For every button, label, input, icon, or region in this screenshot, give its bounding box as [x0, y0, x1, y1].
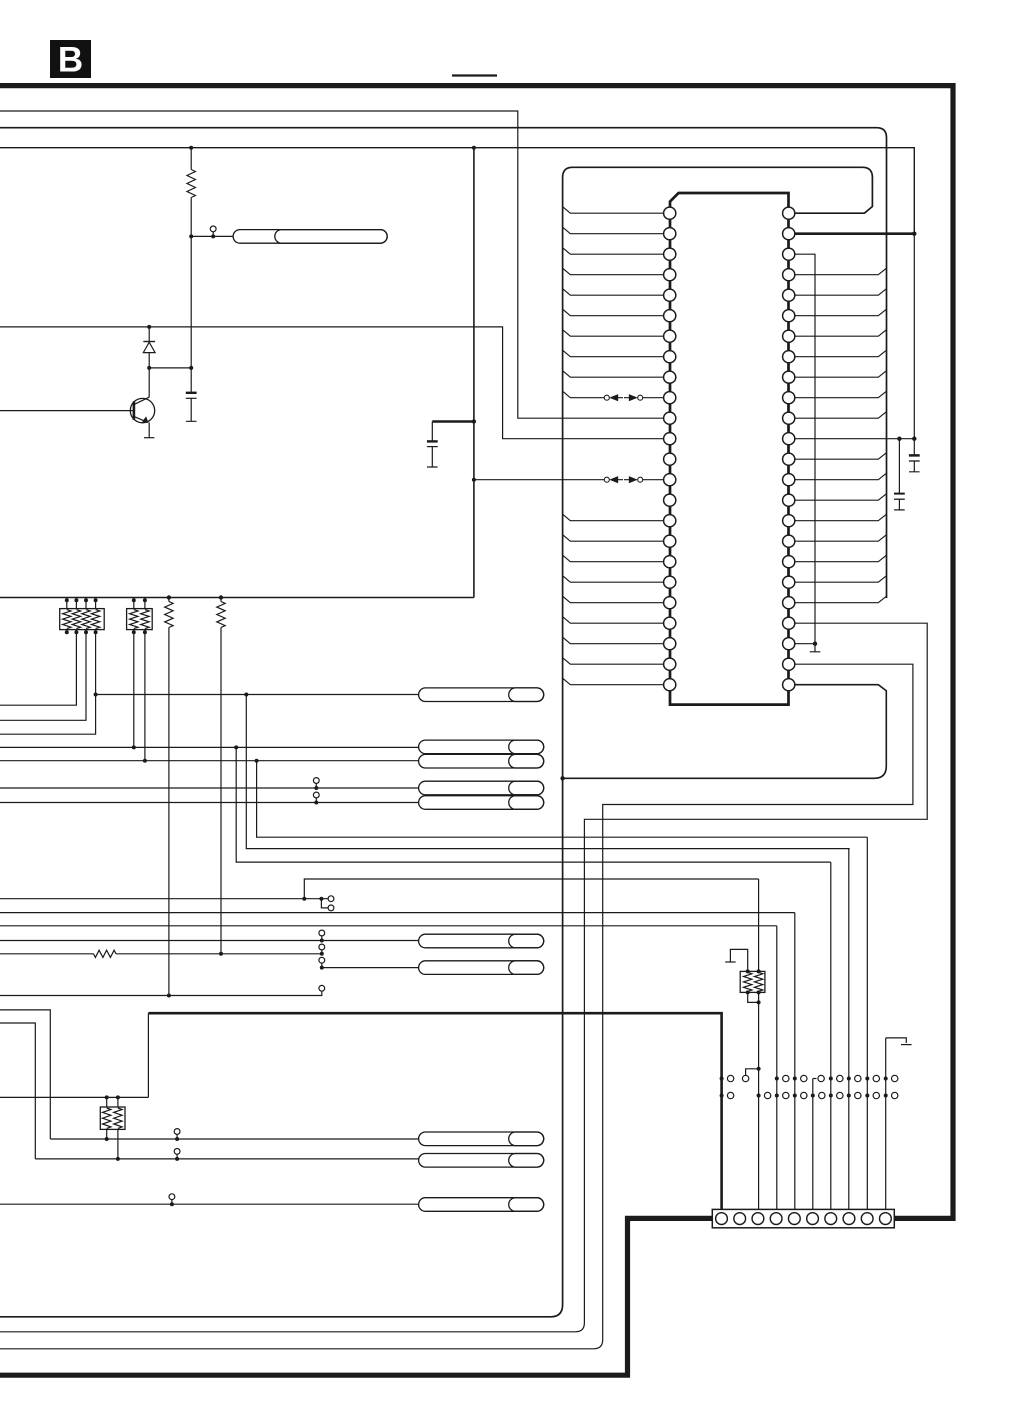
junction dot R2 lead [167, 994, 171, 998]
junction dot SW1 riser [302, 897, 306, 901]
wire IC pin R21 route down [0, 623, 927, 1332]
wire bus entry to IC pin L7 [563, 330, 664, 337]
junction dot RN2 lead on P3 net [132, 745, 136, 749]
wire net corner to pill P9 feed [0, 1010, 50, 1139]
wire IC pin R15 bus entry [795, 494, 887, 501]
wire connector col4 lower [794, 913, 796, 1210]
junction dot R3 lead [219, 952, 223, 956]
wire net to IC pin L11 [0, 111, 664, 418]
wire bus entry with disconnect symbol to IC pin L10 [563, 391, 605, 398]
wire net to connector col4 [0, 912, 795, 914]
bus right (wire from left edge, corner, down right side of IC) [0, 128, 887, 598]
pill label P4 outer [419, 754, 544, 768]
pill label P3 inner [509, 740, 544, 754]
junction dot corner tap on P4 net [255, 759, 259, 763]
wire net to pill P2 [96, 694, 419, 696]
wire cap C4 rail vertical [913, 234, 915, 439]
junction dot cap C4 top [912, 437, 916, 441]
wire connector col2 through RN4 [758, 879, 760, 971]
wire IC pin R1 wrap-around to left bus [0, 167, 872, 1317]
testpoint TP3 [313, 792, 319, 798]
pill label P6 outer [419, 796, 544, 810]
capacitor C2 [431, 422, 433, 441]
wire net to pill P7 [0, 940, 419, 942]
wire IC pin R17 bus entry [795, 535, 887, 542]
wire connector col9 with ground stub G3 [885, 1038, 887, 1210]
ground stub G1 [810, 644, 821, 652]
wire tap corner to connector col7 [246, 695, 849, 849]
wire RN3 top leads [106, 1097, 108, 1107]
pill label P2 inner [509, 688, 544, 702]
junction dot diode cathode node [147, 366, 151, 370]
wire IC pin R22 to ground stub [795, 643, 815, 645]
pill label P2 outer [419, 688, 544, 702]
IC U1 pin circles (24 per side) [664, 207, 676, 219]
wire RN4 left top lead to ground stub G2 [730, 949, 747, 971]
wire net to pill P11 [0, 1203, 419, 1205]
wire riser to thick connector net [147, 1013, 149, 1097]
thick wire IC pin R2 [795, 232, 915, 235]
wire net to RN3 top [0, 1096, 148, 1098]
pill label P7 inner [509, 934, 544, 948]
wire net to pill P3 [0, 746, 419, 748]
wire IC pin R14 bus entry [795, 473, 887, 480]
junction dot RN1 output 3 tap [94, 693, 98, 697]
switch S1 col5 contact [813, 1078, 817, 1080]
wire IC pin R5 bus entry [795, 289, 887, 296]
pill label P6 inner [509, 796, 544, 810]
diode D1 [148, 327, 150, 342]
resistor network RN2 [127, 609, 153, 630]
wire tap corner to connector col8 [257, 761, 868, 838]
wire net corner to pill P10 feed [0, 1023, 35, 1159]
wire net to pill P4 [0, 760, 419, 762]
transistor Q1 [130, 398, 154, 422]
wire bus entry to IC pin L2 [563, 227, 664, 234]
wire IC pin R11 bus entry [795, 412, 887, 419]
wire RN1 output 2 [0, 633, 86, 721]
wire connector col7 lower [848, 849, 850, 1210]
wire bus entry to IC pin L20 [563, 596, 664, 603]
resistor R1 [190, 148, 192, 170]
wire net to pill P10 [35, 1158, 418, 1160]
wire IC pin R6 bus entry [795, 309, 887, 316]
wire net to connector col3 [0, 925, 777, 927]
wire bus entry to IC pin L16 [563, 514, 664, 521]
box right edge [473, 148, 475, 598]
resistor R3 [219, 595, 223, 599]
wire IC pin R3 down to pin R22 node [795, 254, 815, 644]
wire bus entry to IC pin L17 [563, 535, 664, 542]
junction dot pin R24 wire at left bus [560, 776, 564, 780]
testpoint TP9 [174, 1149, 180, 1155]
testpoint TP2 [313, 778, 319, 784]
wire tap corner to connector col6 [236, 747, 831, 862]
svg-text:B: B [58, 41, 83, 80]
testpoint TP10 [169, 1194, 175, 1200]
wire bus entry to IC pin L3 [563, 248, 664, 255]
wire bus entry to IC pin L1 [563, 207, 664, 214]
wire connector col5 [812, 1079, 814, 1210]
pill label P9 outer [419, 1132, 544, 1146]
wire IC pin R8 bus entry [795, 350, 887, 357]
resistor R2 [167, 595, 171, 599]
pill label P5 outer [419, 781, 544, 795]
pill label P10 inner [509, 1154, 544, 1168]
wire RN4 bottom lead [748, 992, 759, 1002]
wire bus entry to IC pin L18 [563, 555, 664, 562]
border top-right [0, 86, 953, 1219]
junction dot node R1/pill wire [189, 234, 193, 238]
resistor network RN3 [100, 1107, 125, 1129]
wire net to pill P6 [0, 802, 419, 804]
wire resistor network RN1 top leads [66, 598, 68, 609]
resistor network RN1 bottom lead dots [66, 630, 68, 633]
junction dot corner tap on P3 net [234, 745, 238, 749]
wire net to pill P5 [0, 787, 419, 789]
pill label P1 outer [233, 230, 387, 244]
wire RN3 bottom leads [106, 1129, 108, 1139]
testpoint TP4 [319, 930, 325, 936]
wire R1 to cap C1 node [190, 236, 192, 368]
wire bus entry to IC pin L5 [563, 289, 664, 296]
wire bus entry to IC pin L22 [563, 637, 664, 644]
pill label P5 inner [509, 781, 544, 795]
open point TP5 [320, 952, 324, 956]
resistor network RN1 [60, 609, 104, 630]
wire to pill P1 [191, 235, 233, 237]
wire IC pin R19 bus entry [795, 576, 887, 583]
wire base of Q1 [0, 410, 134, 412]
pill label P3 outer [419, 740, 544, 754]
junction dot cap C1 top [189, 366, 193, 370]
junction dot diode anode net [147, 325, 151, 329]
wire bus entry to IC pin L24 [563, 678, 664, 685]
border bottom-left [0, 1218, 712, 1375]
wire bus entry to IC pin L19 [563, 576, 664, 583]
wire IC pin R13 bus entry [795, 453, 887, 460]
testpoint TP8 [174, 1129, 180, 1135]
switch matrix S1 contacts [720, 1077, 724, 1081]
wire RN1 output 1 [0, 633, 76, 705]
wire SW1 riser to connector col2 [304, 879, 758, 899]
box bottom edge [0, 597, 474, 599]
wire net to pill P9 [50, 1138, 418, 1140]
junction dot RN2 lead on P4 net [143, 759, 147, 763]
capacitor C3 [898, 439, 900, 493]
wire net R3 tap [0, 953, 94, 955]
wire IC pin R9 bus entry [795, 371, 887, 378]
connector J1 pin circles [716, 1213, 728, 1225]
junction dot pin R2 wire end [912, 232, 916, 236]
pill label P11 outer [419, 1198, 544, 1212]
wire R4 to open point [116, 953, 322, 955]
wire IC pin R4 bus entry [795, 268, 887, 275]
wire net SW1 [0, 898, 328, 900]
wire bus entry to IC pin L4 [563, 268, 664, 275]
wire resistor network RN2 top leads [133, 598, 135, 609]
switch SW1 contacts [319, 897, 323, 901]
wire box edge to IC pin L14 with disconnect symbol [472, 478, 476, 482]
wire IC pin R23 route down [0, 664, 913, 1349]
connector J1 body [712, 1209, 894, 1227]
pill label P8 outer [419, 961, 544, 975]
pill label P9 inner [509, 1132, 544, 1146]
tick mark top right [452, 74, 497, 76]
wire net to IC pin L12 [0, 327, 664, 439]
IC U1 body [670, 193, 789, 705]
wire IC pin R7 bus entry [795, 330, 887, 337]
wire bus entry to IC pin L23 [563, 658, 664, 665]
wire IC pin R16 bus entry [795, 514, 887, 521]
resistor network RN4 [740, 971, 765, 992]
junction dot pin R22 node [813, 642, 817, 646]
wire IC pin R20 bus entry [795, 596, 887, 603]
wire connector col6 lower [830, 862, 832, 1209]
wire bus entry to IC pin L9 [563, 371, 664, 378]
wire connector col3 lower [776, 926, 778, 1210]
wire connector col8 lower [866, 837, 868, 1209]
box top edge wire to pin R2 net [0, 148, 914, 234]
wire IC pin R24 route to left bus [563, 685, 887, 779]
pill label P1 inner [275, 230, 387, 244]
capacitor C1 [190, 368, 192, 392]
resistor network RN2 bottom leads [133, 630, 135, 748]
thick wire to connector pin 1 [148, 1013, 721, 1209]
junction dot box top right corner [472, 146, 476, 150]
junction dot on P2 net [244, 693, 248, 697]
label B box [50, 40, 91, 78]
resistor R4 [94, 950, 117, 957]
pill label P11 inner [509, 1198, 544, 1212]
junction dot at resistor R1 top [189, 146, 193, 150]
switch S1 col2 floating contact [742, 1075, 748, 1081]
wire bus entry to IC pin L8 [563, 350, 664, 357]
wire bus entry to IC pin L21 [563, 617, 664, 624]
wire bus entry to IC pin L6 [563, 309, 664, 316]
junction dot cap C3 top [897, 437, 901, 441]
pill label P10 outer [419, 1154, 544, 1168]
wire RN1 output 3 [0, 633, 96, 734]
pill label P8 inner [509, 961, 544, 975]
pill label P7 outer [419, 934, 544, 948]
wire IC pin R18 bus entry [795, 555, 887, 562]
junction dot thick wire at box edge [472, 419, 476, 423]
junction dot RN4 bottom [757, 1000, 761, 1004]
wire diode node to cap C1 [149, 367, 191, 369]
wire IC pin R10 bus entry [795, 391, 887, 398]
wire IC pin R12 to capacitor rail [795, 438, 915, 440]
testpoint TP1 [210, 226, 216, 232]
wire TP6 to pill P8 [322, 967, 419, 969]
pill label P4 inner [509, 754, 544, 768]
thick wire to cap C2 [432, 420, 474, 423]
wire net with end circle TP7 [0, 991, 322, 995]
open point TP6 [319, 957, 325, 963]
capacitor C4 [913, 439, 915, 455]
